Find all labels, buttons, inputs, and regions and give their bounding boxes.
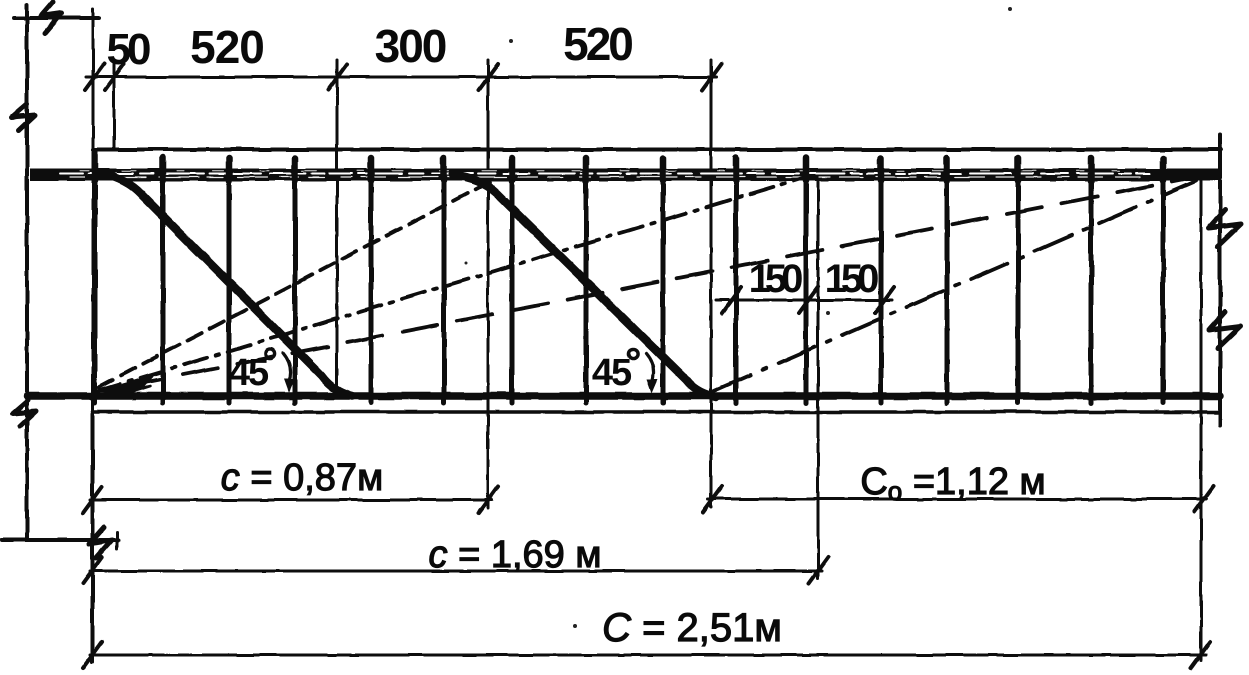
svg-text:45: 45	[229, 352, 269, 394]
stirrup 6 at x=444	[442, 160, 447, 403]
degree ring 1	[265, 349, 274, 358]
svg-text:c = 0,87м: c = 0,87м	[221, 457, 383, 499]
svg-text:150: 150	[749, 257, 802, 301]
svg-text:300: 300	[375, 20, 446, 72]
tick at 709	[702, 64, 721, 90]
extension line x=337	[336, 60, 339, 398]
tick 884	[875, 287, 894, 313]
top chord rebar band	[30, 169, 1220, 182]
beam top outline	[93, 148, 1221, 152]
svg-text:150: 150	[825, 257, 878, 301]
extension line x=114 (50 mark)	[113, 60, 116, 147]
bent bar 2	[453, 175, 716, 397]
stirrup 7 at x=512	[510, 160, 515, 403]
break symbol on bottom-left horizontal	[89, 527, 112, 558]
extension line x=818	[817, 178, 820, 578]
stirrup 4 at x=295	[293, 160, 298, 403]
stirrup top caps	[95, 155, 1163, 181]
stirrup 8 at x=586	[584, 160, 589, 403]
tick at 114	[105, 64, 124, 90]
stirrup 5 at x=371	[369, 160, 374, 403]
crack K1 dashed	[99, 182, 489, 387]
break symbol on left vertical (upper)	[12, 104, 35, 130]
scan speckles	[465, 7, 1013, 628]
extension line x=711	[710, 60, 713, 507]
150 dimension line	[716, 299, 892, 302]
stirrup 2 at x=163	[161, 160, 166, 403]
tick at 337	[328, 64, 347, 90]
extension line x=92 below beam	[91, 414, 94, 662]
break symbol on left vertical (lower)	[13, 400, 36, 426]
extension line x=1201	[1200, 178, 1203, 660]
beam right end line	[1218, 134, 1222, 425]
tick at 94	[85, 64, 104, 90]
svg-text:45: 45	[592, 352, 632, 394]
svg-text:C = 2,51м: C = 2,51м	[602, 606, 782, 650]
stirrup 1 at x=95	[93, 150, 98, 403]
crack K4 dash-dot right	[714, 181, 1196, 391]
stirrup 9 at x=663	[661, 160, 666, 403]
break symbol right upper	[1209, 210, 1241, 246]
bottom-left horizontal line	[2, 538, 118, 542]
svg-text:c = 1,69 м: c = 1,69 м	[429, 534, 602, 576]
break symbol on top-left horizontal	[41, 2, 62, 33]
tick at end of bottom-left horizontal	[116, 532, 119, 549]
crack K3 dashed long	[98, 177, 1197, 391]
top dimension line	[86, 76, 716, 79]
bent bar 1	[98, 173, 352, 396]
svg-text:520: 520	[563, 18, 632, 70]
degree ring 2	[628, 349, 637, 358]
arrow at left support	[102, 376, 152, 393]
stirrups	[95, 150, 1163, 403]
extension line x=488	[487, 60, 490, 508]
stirrup 11 at x=806	[804, 160, 809, 403]
45 deg leader arrow 1	[283, 353, 291, 382]
stirrup 10 at x=736	[734, 160, 739, 403]
break symbol right lower	[1209, 312, 1241, 348]
left column top tick	[14, 16, 99, 20]
dim line c=0.87	[90, 499, 492, 502]
stirrup 12 at x=881	[879, 160, 884, 403]
stirrup 13 at x=947	[945, 160, 950, 403]
extension line x=93 full height	[92, 9, 95, 662]
45 deg leader arrow 2	[646, 353, 654, 382]
bottom chord rebar	[27, 392, 1220, 400]
tick 731	[722, 287, 741, 313]
svg-text:50: 50	[107, 25, 150, 74]
left column vertical line	[25, 5, 29, 540]
stirrup 3 at x=229	[227, 160, 232, 403]
crack K2 dash-dot	[97, 177, 806, 391]
stirrup 16 at x=1163	[1161, 160, 1166, 403]
tick at 488	[479, 64, 498, 90]
stirrup 14 at x=1018	[1016, 160, 1021, 403]
dim line c=2.51	[90, 654, 1206, 657]
dim line c=1.69	[90, 570, 822, 573]
tick 808	[799, 287, 818, 313]
svg-text:520: 520	[190, 21, 264, 73]
beam bottom outline	[93, 410, 1220, 414]
stirrup 15 at x=1091	[1089, 160, 1094, 403]
dim line c0=1.12	[708, 498, 1206, 501]
